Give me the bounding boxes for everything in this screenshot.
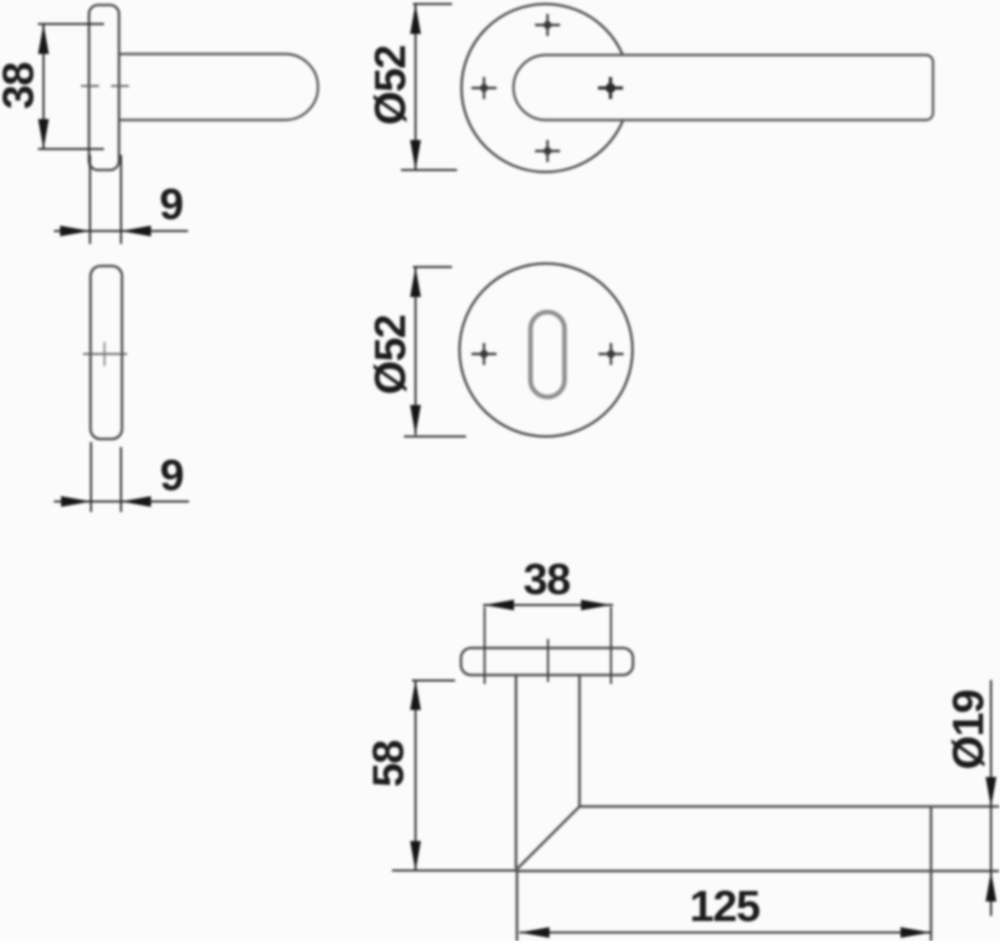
svg-text:38: 38 (523, 555, 570, 604)
svg-text:58: 58 (364, 740, 413, 787)
svg-text:9: 9 (160, 451, 183, 500)
svg-text:Ø52: Ø52 (366, 46, 415, 126)
svg-text:125: 125 (690, 882, 761, 931)
svg-text:38: 38 (0, 62, 43, 109)
svg-text:Ø52: Ø52 (366, 315, 415, 395)
svg-text:9: 9 (159, 180, 182, 229)
svg-text:Ø19: Ø19 (944, 690, 993, 770)
